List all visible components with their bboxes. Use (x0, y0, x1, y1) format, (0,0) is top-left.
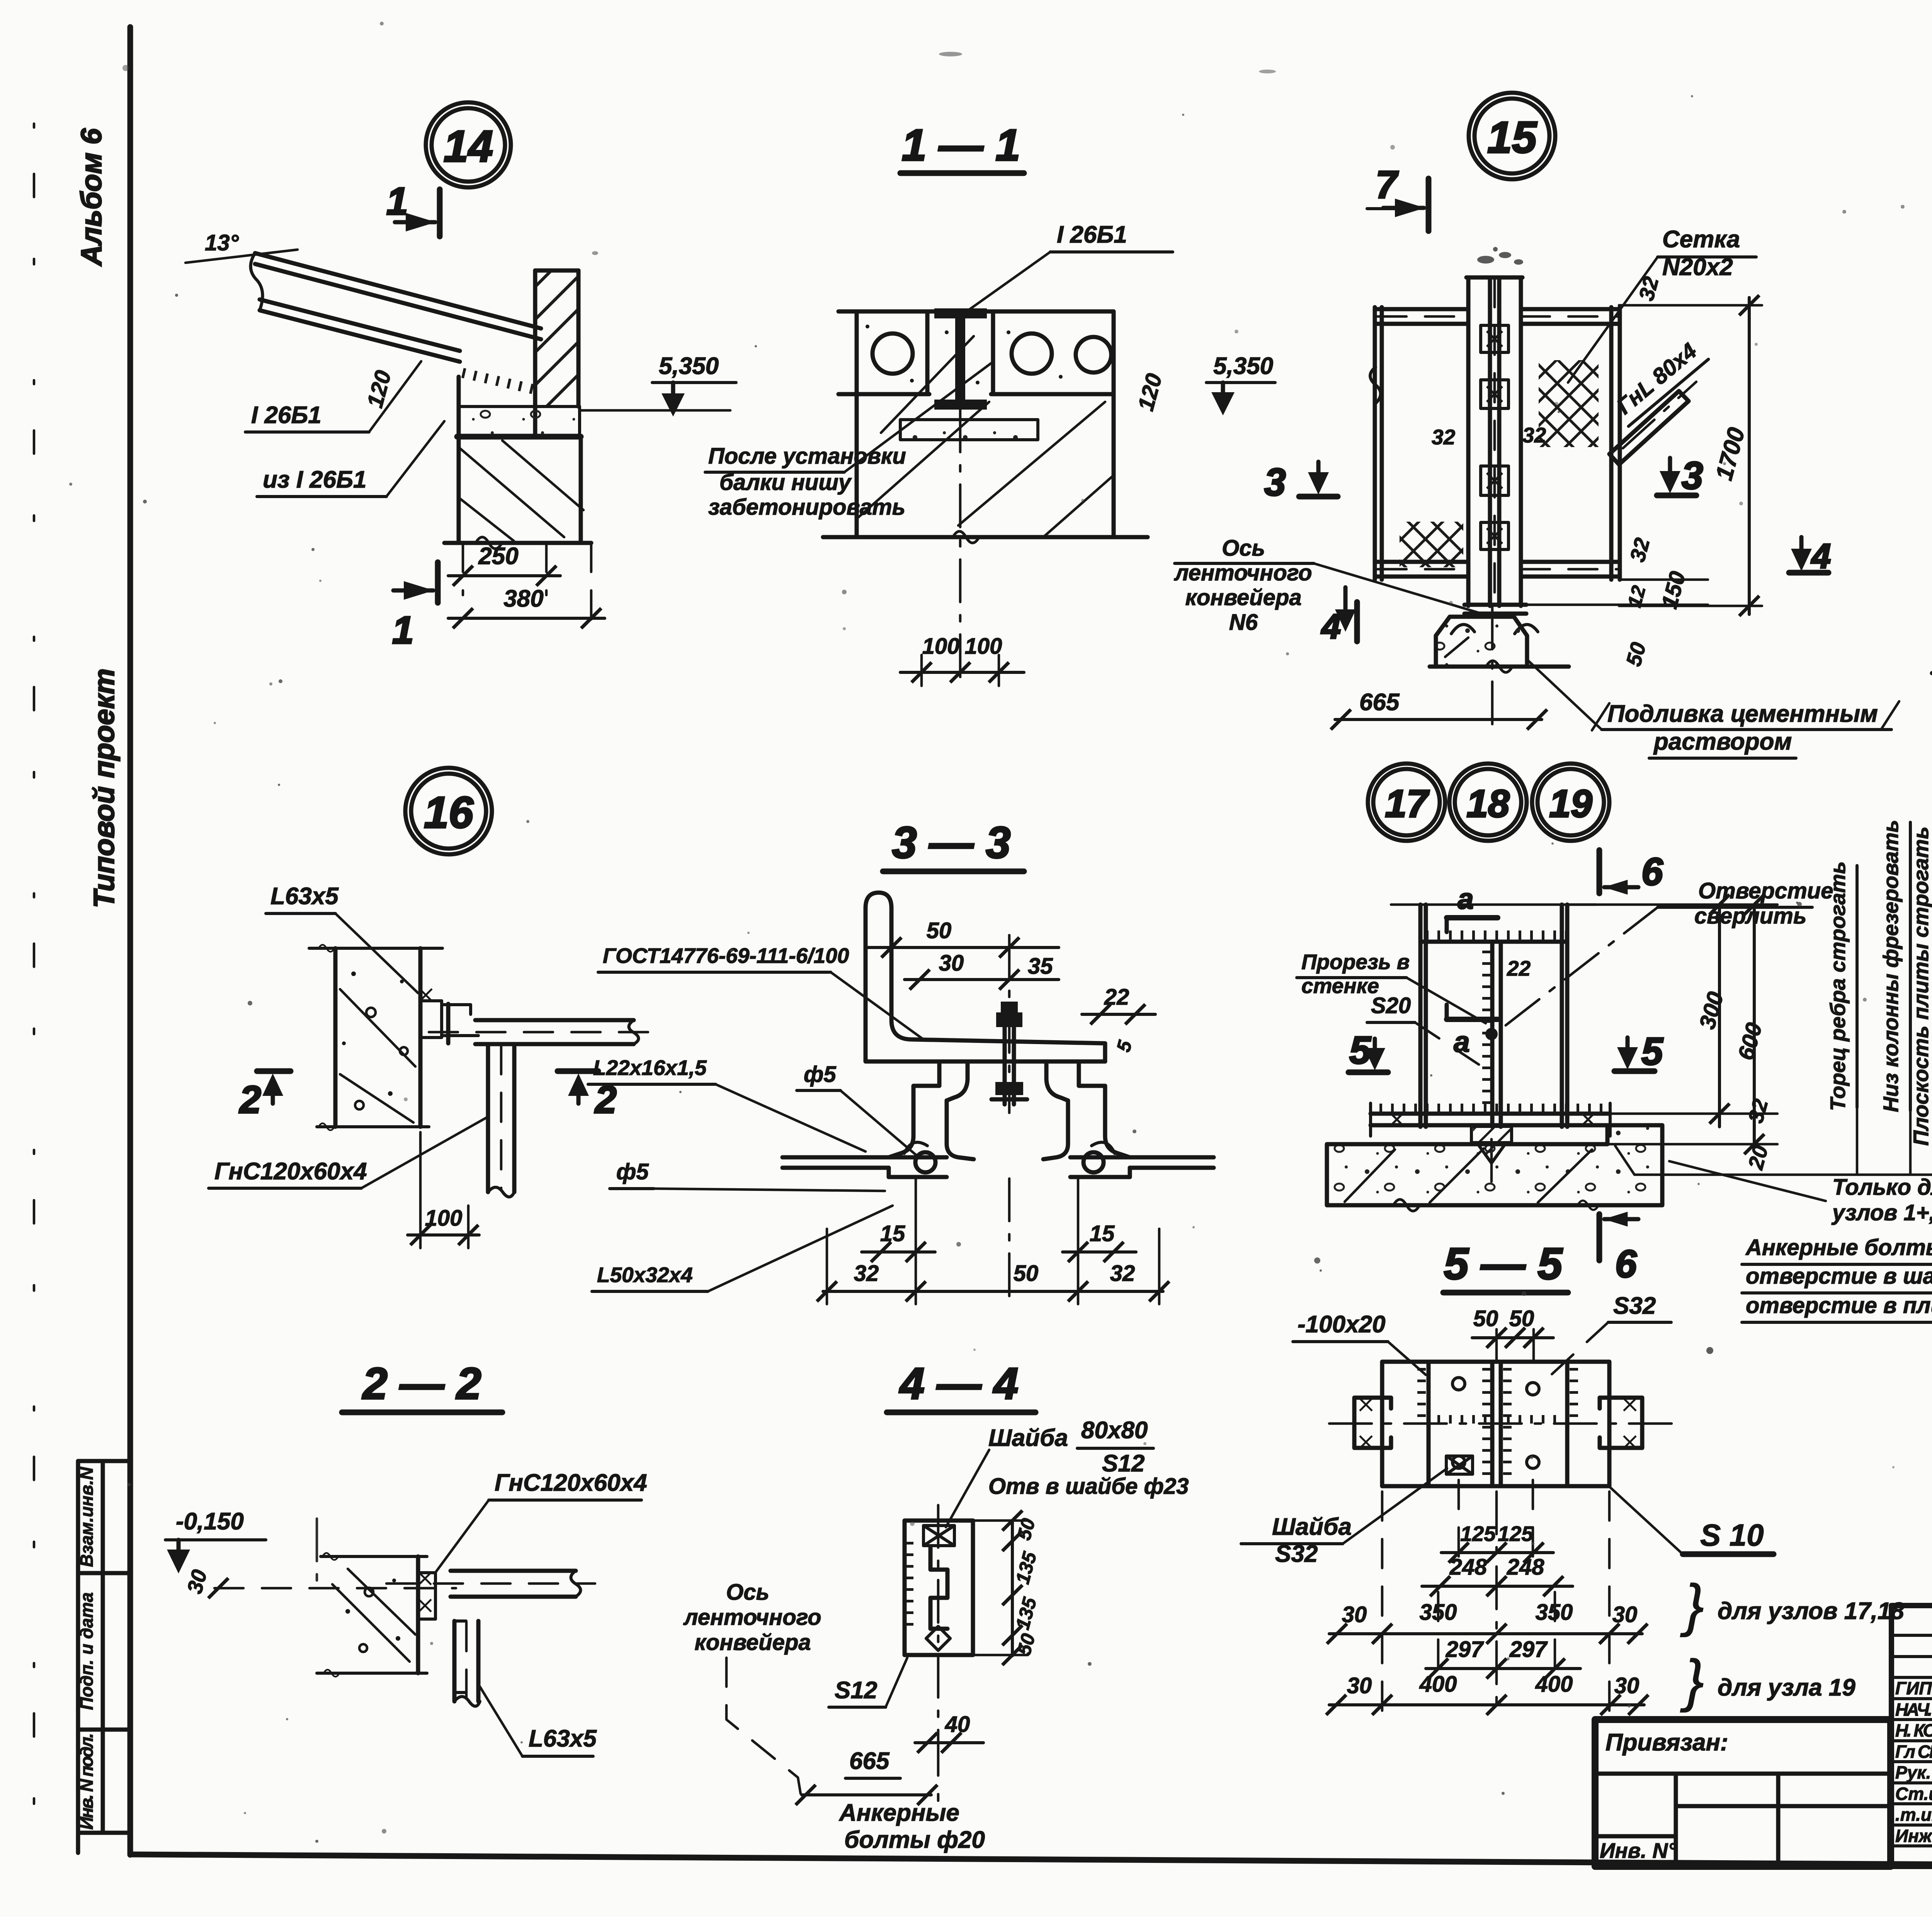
svg-text:6: 6 (1615, 1242, 1637, 1286)
svg-text:2: 2 (239, 1078, 261, 1121)
svg-text:из I 26Б1: из I 26Б1 (263, 466, 367, 493)
svg-text:I 26Б1: I 26Б1 (1057, 221, 1127, 248)
svg-text:ф5: ф5 (616, 1159, 649, 1184)
svg-text:L63х5: L63х5 (529, 1725, 597, 1752)
svg-text:17: 17 (1385, 782, 1430, 825)
svg-text:ленточного: ленточного (683, 1605, 821, 1630)
svg-text:ГОСТ14776-69-111-6/100: ГОСТ14776-69-111-6/100 (603, 944, 849, 968)
svg-text:35: 35 (1028, 954, 1053, 979)
svg-text:Подп. и дата: Подп. и дата (77, 1592, 97, 1710)
svg-text:125: 125 (1460, 1522, 1496, 1546)
svg-text:Шайба: Шайба (988, 1425, 1068, 1451)
svg-text:30: 30 (1612, 1602, 1638, 1627)
svg-text:Анкерные: Анкерные (838, 1800, 959, 1826)
svg-text:Рук. гр.: Рук. гр. (1895, 1762, 1932, 1783)
svg-text:3 — 3: 3 — 3 (892, 818, 1011, 867)
svg-text:L22х16х1,5: L22х16х1,5 (593, 1056, 707, 1080)
svg-text:для узлов 17,18: для узлов 17,18 (1718, 1598, 1904, 1624)
svg-text:S32: S32 (1613, 1293, 1656, 1319)
svg-text:15: 15 (880, 1221, 905, 1246)
svg-text:Торец ребра строгать: Торец ребра строгать (1826, 861, 1850, 1111)
svg-text:14: 14 (444, 122, 493, 171)
svg-text:380: 380 (503, 585, 543, 612)
svg-text:297: 297 (1509, 1637, 1548, 1662)
svg-text:13°: 13° (205, 230, 239, 255)
svg-text:40: 40 (945, 1712, 970, 1737)
svg-text:250: 250 (478, 543, 518, 570)
svg-text:Инв. N°: Инв. N° (1600, 1839, 1677, 1863)
svg-text:30: 30 (1614, 1673, 1639, 1698)
svg-text:22: 22 (1507, 956, 1531, 980)
svg-text:Гл СПЕЦ.: Гл СПЕЦ. (1895, 1742, 1932, 1762)
svg-text:S20: S20 (1371, 993, 1411, 1018)
svg-text:Н. КОНТР: Н. КОНТР (1895, 1720, 1932, 1740)
svg-text:Подливка цементным: Подливка цементным (1607, 701, 1878, 727)
svg-text:-0,150: -0,150 (176, 1508, 244, 1535)
svg-text:Ось: Ось (726, 1580, 769, 1605)
svg-text:Шайба: Шайба (1272, 1514, 1352, 1540)
svg-text:для узла 19: для узла 19 (1718, 1674, 1855, 1701)
svg-text:болты ф20: болты ф20 (844, 1827, 985, 1853)
svg-text:1 — 1: 1 — 1 (902, 121, 1020, 170)
svg-text:Инв. N подл.: Инв. N подл. (77, 1733, 97, 1830)
svg-text:50: 50 (1509, 1306, 1534, 1331)
svg-text:L63х5: L63х5 (270, 883, 339, 910)
svg-text:32: 32 (854, 1261, 879, 1286)
svg-text:Низ колонны фрезеровать: Низ колонны фрезеровать (1879, 820, 1903, 1112)
svg-text:248: 248 (1507, 1555, 1545, 1580)
svg-text:100: 100 (922, 634, 960, 659)
svg-text:I 26Б1: I 26Б1 (251, 402, 321, 429)
svg-text:ГИП.: ГИП. (1895, 1678, 1932, 1698)
svg-text:6: 6 (1641, 850, 1663, 893)
svg-text:15: 15 (1487, 113, 1537, 162)
svg-text:5: 5 (1641, 1030, 1663, 1073)
svg-text:ГнС120х60х4: ГнС120х60х4 (495, 1470, 647, 1496)
svg-text:297: 297 (1446, 1637, 1485, 1662)
svg-text:отверстие в плите ф86: отверстие в плите ф86 (1746, 1293, 1932, 1318)
svg-text:Инжен.: Инжен. (1895, 1826, 1932, 1846)
svg-text:5,350: 5,350 (1213, 353, 1273, 379)
svg-text:НАЧ. ОТД: НАЧ. ОТД (1895, 1699, 1932, 1720)
svg-text:248: 248 (1449, 1555, 1488, 1580)
svg-text:19: 19 (1549, 782, 1592, 825)
svg-text:665: 665 (1359, 689, 1400, 716)
svg-text:1: 1 (386, 180, 408, 223)
svg-text:конвейера: конвейера (1185, 585, 1301, 610)
svg-text:30: 30 (939, 951, 964, 976)
svg-text:S 10: S 10 (1700, 1518, 1764, 1552)
svg-text:Отверстие: Отверстие (1698, 878, 1833, 903)
svg-text:16: 16 (424, 788, 474, 837)
svg-text:30: 30 (1347, 1673, 1372, 1698)
svg-text:Альбом 6: Альбом 6 (75, 128, 107, 267)
svg-text:Анкерные болты ι136: Анкерные болты ι136 (1745, 1235, 1932, 1260)
svg-text:80х80: 80х80 (1081, 1417, 1148, 1444)
svg-text:Только для: Только для (1832, 1175, 1932, 1200)
svg-text:15: 15 (1090, 1221, 1115, 1246)
svg-text:665: 665 (849, 1748, 890, 1774)
svg-text:3: 3 (1264, 461, 1286, 504)
svg-text:5,350: 5,350 (659, 353, 719, 379)
svg-text:Плоскость плиты строгать: Плоскость плиты строгать (1909, 827, 1932, 1146)
svg-text:5 — 5: 5 — 5 (1444, 1239, 1563, 1289)
svg-text:N6: N6 (1229, 610, 1258, 635)
svg-text:32: 32 (1432, 425, 1456, 449)
svg-text:Взам.инв.N: Взам.инв.N (77, 1467, 97, 1567)
svg-text:Прорезь в: Прорезь в (1301, 950, 1410, 974)
svg-text:3: 3 (1682, 454, 1703, 497)
svg-text:ф5: ф5 (804, 1062, 836, 1087)
svg-text:125: 125 (1498, 1522, 1534, 1546)
svg-text:S12: S12 (835, 1677, 877, 1704)
svg-text:4 — 4: 4 — 4 (899, 1359, 1019, 1408)
svg-text:Ось: Ось (1222, 536, 1265, 561)
svg-text:Типовой проект: Типовой проект (88, 668, 120, 908)
svg-text:50: 50 (1473, 1306, 1498, 1331)
svg-text:L50х32х4: L50х32х4 (597, 1263, 693, 1287)
svg-text:ГнС120х60х4: ГнС120х60х4 (214, 1158, 367, 1185)
svg-text:Привязан:: Привязан: (1605, 1729, 1728, 1756)
svg-text:узлов 1+,19: узлов 1+,19 (1831, 1200, 1932, 1225)
svg-text:400: 400 (1535, 1672, 1573, 1697)
svg-text:-100х20: -100х20 (1298, 1311, 1386, 1338)
svg-text:S12: S12 (1102, 1450, 1145, 1477)
svg-text:1: 1 (392, 609, 414, 652)
svg-text:100: 100 (965, 634, 1002, 659)
svg-text:отверстие в шайбе ф39: отверстие в шайбе ф39 (1746, 1264, 1932, 1289)
svg-text:32: 32 (1110, 1261, 1135, 1286)
svg-text:Ст.инж.: Ст.инж. (1895, 1784, 1932, 1804)
svg-text:400: 400 (1419, 1672, 1457, 1697)
svg-text:.т.инж.: .т.инж. (1895, 1805, 1932, 1825)
svg-text:50: 50 (1014, 1261, 1039, 1286)
svg-text:конвейера: конвейера (694, 1630, 811, 1655)
svg-text:32: 32 (1522, 423, 1546, 447)
svg-text:Отв в шайбе ф23: Отв в шайбе ф23 (988, 1474, 1189, 1499)
svg-text:забетонировать: забетонировать (708, 495, 905, 520)
svg-text:50: 50 (927, 918, 952, 943)
svg-text:2 — 2: 2 — 2 (362, 1359, 481, 1408)
svg-text:18: 18 (1466, 782, 1510, 825)
svg-text:Сетка: Сетка (1662, 226, 1740, 253)
svg-text:раствором: раствором (1653, 728, 1792, 755)
svg-text:а: а (1458, 883, 1474, 915)
